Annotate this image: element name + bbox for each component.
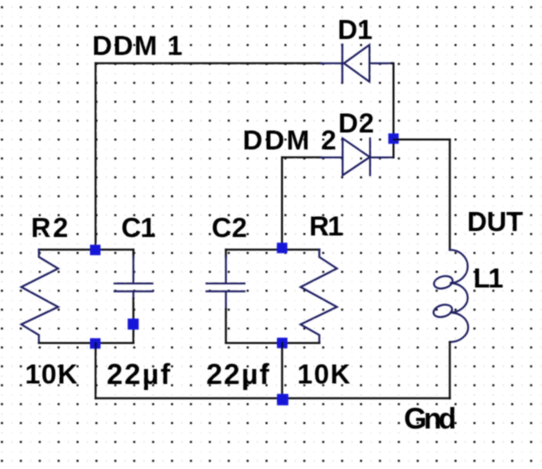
svg-text:10K: 10K [25, 359, 78, 390]
wire C2 bottom vertical [225, 309, 227, 343]
capacitor C1 [115, 257, 153, 299]
wire C1 bottom vertical [132, 299, 134, 344]
inductor L1 (coil) [432, 250, 468, 342]
svg-text:10K: 10K [297, 359, 350, 390]
svg-text:DUT: DUT [467, 206, 523, 237]
diode D1 (cathode bar left, anode right) [321, 45, 392, 83]
svg-text:C1: C1 [121, 212, 155, 243]
svg-text:R2: R2 [31, 212, 68, 243]
svg-text:R1: R1 [309, 210, 343, 241]
svg-text:22µf: 22µf [206, 359, 269, 391]
wire DDM2 vertical (down to C2/R1 top node) [281, 157, 283, 249]
svg-text:L1: L1 [473, 263, 503, 294]
wire Gnd rail horizontal [96, 397, 450, 399]
junction Gnd rail [277, 394, 288, 405]
junction C1 bottom pin [128, 319, 139, 330]
wire DDM2 horizontal (net DDM2 to D2 anode) [282, 156, 321, 158]
wire junction to DUT branch [394, 139, 450, 141]
junction node (D1/D2/DUT) [388, 133, 398, 143]
junction R2/C1 top (node to DDM1) [90, 245, 101, 256]
wire C2 top to R1 top (through center top node) [226, 249, 319, 251]
svg-text:C2: C2 [212, 212, 247, 243]
wire D2 cathode up to junction [393, 140, 395, 158]
wire C2 top stub [225, 250, 227, 257]
resistor R2 [21, 250, 58, 343]
svg-text:DDM 2: DDM 2 [243, 124, 336, 155]
wire DDM1 horizontal (net DDM1 to D1 cathode) [96, 62, 321, 64]
svg-text:D1: D1 [338, 14, 373, 45]
wire center drop to Gnd rail [281, 343, 283, 398]
capacitor C2 [207, 257, 245, 310]
svg-text:Gnd: Gnd [404, 402, 457, 435]
wire C2 bottom to R1 bottom (through center bottom node) [226, 342, 319, 344]
wire L1 bottom to Gnd rail [449, 342, 451, 398]
junction C2/R1 bottom [277, 338, 288, 349]
svg-text:D2: D2 [338, 108, 374, 139]
wire R2 top to C1 top (through left top node) [39, 249, 133, 251]
resistor R1 [301, 250, 337, 343]
svg-text:DDM 1: DDM 1 [92, 30, 182, 61]
diode D2 (anode left, cathode bar right) [321, 138, 394, 175]
junction R2/C1 bottom [90, 338, 101, 349]
wire D1 anode corner down to junction [392, 63, 394, 139]
wire R2 bottom to C1 bottom (through left bottom node) [39, 342, 133, 344]
wire left drop to Gnd rail [95, 343, 97, 398]
wire C1 top stub [132, 250, 134, 257]
svg-text:22µf: 22µf [107, 359, 171, 391]
wire DDM1 vertical (down to R2/C1 top node) [95, 63, 97, 249]
junction C2/R1 top (node to DDM2) [277, 243, 288, 254]
wire DUT branch vertical down to L1 [449, 140, 451, 250]
